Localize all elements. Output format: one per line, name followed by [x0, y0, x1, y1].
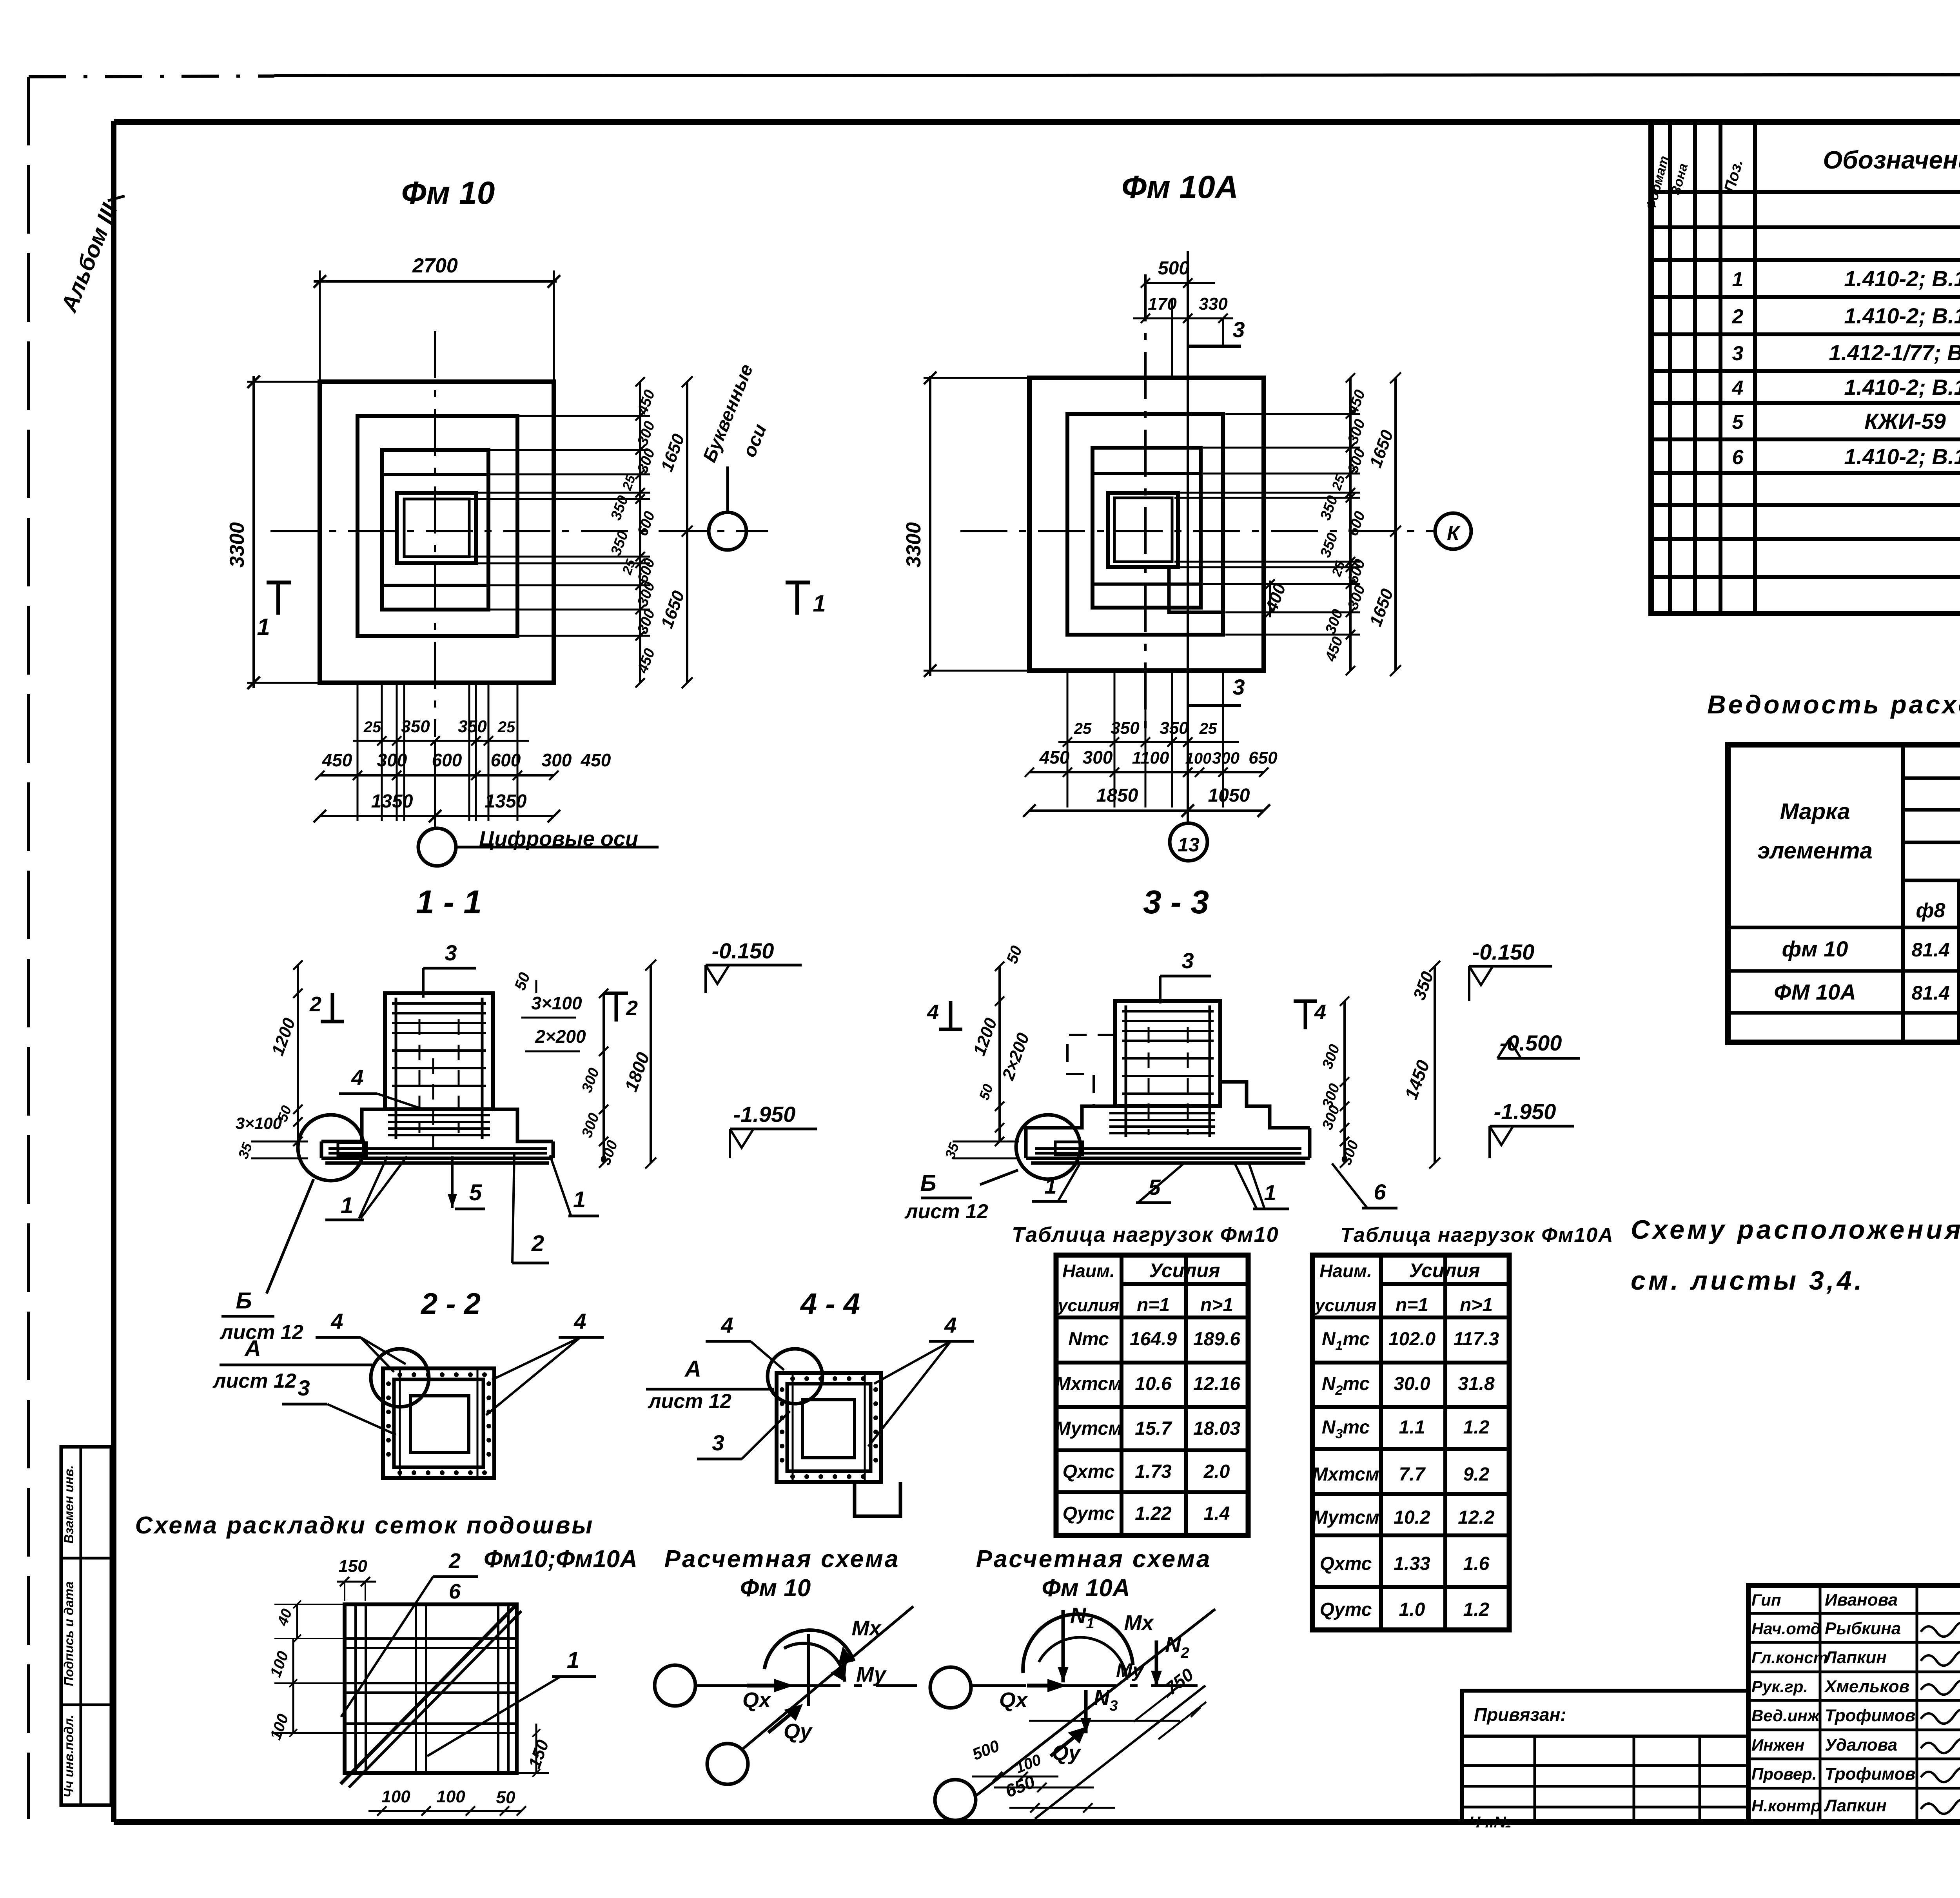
svg-text:2: 2: [309, 993, 321, 1016]
plan FM10 dim 2700 top: [314, 280, 557, 283]
plan FM10 third step inner band lines: [382, 473, 488, 476]
svg-text:3: 3: [1181, 948, 1194, 973]
svg-text:Провер.: Провер.: [1751, 1765, 1817, 1783]
svg-text:Таблица нагрузок Фм10: Таблица нагрузок Фм10: [1012, 1223, 1279, 1247]
svg-text:лист 12: лист 12: [647, 1390, 731, 1413]
svg-text:Qутс: Qутс: [1063, 1503, 1115, 1524]
svg-text:Qутс: Qутс: [1320, 1599, 1372, 1620]
svg-text:лист 12: лист 12: [219, 1321, 303, 1344]
svg-text:10.2: 10.2: [1394, 1507, 1430, 1528]
svg-text:1: 1: [1732, 268, 1744, 291]
svg-text:Привязан:: Привязан:: [1474, 1704, 1566, 1725]
svg-text:Рыбкина: Рыбкина: [1825, 1619, 1901, 1638]
plan FM10A bottom-right notch step: [1169, 584, 1223, 612]
title block privyazan grid: [1534, 1736, 1536, 1822]
svg-text:100: 100: [1185, 750, 1212, 767]
mesh layout diagonal mesh line: [341, 1604, 517, 1784]
section 1-1 bottom slab: [320, 1141, 323, 1158]
svg-text:Фм 10: Фм 10: [740, 1575, 811, 1602]
svg-text:Обозначение: Обозначение: [1823, 146, 1960, 174]
title block privyazan box: [1462, 1691, 1748, 1822]
svg-text:102.0: 102.0: [1388, 1329, 1436, 1350]
steel table subcolumn lines: [1957, 880, 1960, 1042]
svg-text:Фм10;Фм10А: Фм10;Фм10А: [484, 1546, 637, 1573]
calc scheme FM10A axis circle bottom: [935, 1780, 976, 1820]
svg-text:2 - 2: 2 - 2: [420, 1287, 481, 1321]
plan FM10 column inner square: [404, 499, 469, 557]
section 3-3 detail circle: [1016, 1115, 1080, 1179]
section 1-1 label 3 top: [423, 967, 476, 970]
svg-text:Му: Му: [1116, 1659, 1144, 1681]
svg-text:81.4: 81.4: [1911, 982, 1949, 1004]
calc scheme FM10A axis circle left: [930, 1667, 971, 1708]
calc scheme FM10A N3 arrow: [1084, 1690, 1088, 1733]
svg-text:10.6: 10.6: [1135, 1374, 1172, 1394]
svg-text:3: 3: [1732, 342, 1744, 365]
svg-text:Расчетная схема: Расчетная схема: [976, 1546, 1212, 1573]
plan FM10 horizontal centerline: [270, 530, 768, 532]
svg-text:1350: 1350: [371, 791, 413, 812]
svg-text:3×100: 3×100: [531, 993, 582, 1013]
calc scheme FM10 Qx arrow: [747, 1684, 786, 1688]
svg-text:50: 50: [496, 1788, 515, 1807]
svg-text:1.73: 1.73: [1135, 1461, 1172, 1482]
mesh layout grid outer: [345, 1604, 517, 1773]
svg-text:Мхтсм: Мхтсм: [1055, 1374, 1122, 1394]
section 1-1 pedestal stirrups: [392, 1002, 486, 1005]
svg-text:2: 2: [626, 996, 638, 1020]
svg-text:Таблица нагрузок Фм10А: Таблица нагрузок Фм10А: [1340, 1224, 1614, 1247]
svg-text:Гип: Гип: [1751, 1591, 1781, 1609]
svg-text:Инжен: Инжен: [1751, 1736, 1804, 1754]
svg-text:Подпись и дата: Подпись и дата: [62, 1581, 76, 1686]
svg-text:4: 4: [351, 1065, 363, 1090]
svg-text:25: 25: [497, 719, 515, 736]
svg-text:4: 4: [330, 1309, 343, 1334]
svg-text:1.410-2; В.1: 1.410-2; В.1: [1844, 303, 1960, 328]
svg-text:Взамен инв.: Взамен инв.: [62, 1465, 76, 1544]
svg-text:А: А: [244, 1336, 261, 1361]
plan FM10A third step inner band lines: [1093, 472, 1201, 475]
section 3-3 callout B list 12: [980, 1170, 1018, 1185]
svg-text:3 - 3: 3 - 3: [1143, 884, 1209, 920]
svg-text:2: 2: [531, 1231, 544, 1256]
svg-text:5: 5: [1732, 411, 1744, 434]
plan FM10 second step rect: [358, 416, 517, 636]
svg-text:-1.950: -1.950: [733, 1102, 796, 1127]
svg-text:Мутсм: Мутсм: [1055, 1418, 1122, 1439]
svg-text:300: 300: [542, 750, 572, 770]
svg-text:25: 25: [363, 719, 381, 736]
svg-text:Лапкин: Лапкин: [1824, 1796, 1887, 1815]
svg-text:650: 650: [1249, 748, 1278, 768]
svg-text:Nтс: Nтс: [1068, 1329, 1109, 1350]
section 2-2 outer square: [383, 1368, 494, 1478]
calc scheme FM10 moment arc My: [784, 1643, 845, 1682]
svg-text:ФМ 10А: ФМ 10А: [1774, 980, 1856, 1004]
svg-text:450: 450: [1039, 747, 1070, 768]
section 1-1 slab mesh lines: [388, 1114, 490, 1116]
svg-text:150: 150: [338, 1557, 367, 1576]
svg-text:Трофимов: Трофимов: [1825, 1706, 1915, 1725]
svg-text:Удалова: Удалова: [1825, 1735, 1897, 1755]
calc scheme FM10A N2 arrow: [1155, 1640, 1158, 1686]
svg-text:100: 100: [436, 1787, 465, 1806]
section 1-1 pedestal outline: [385, 993, 493, 1109]
svg-text:1.0: 1.0: [1399, 1599, 1425, 1620]
svg-text:2: 2: [448, 1549, 461, 1573]
svg-text:15.7: 15.7: [1135, 1418, 1172, 1439]
svg-text:Фм 10А: Фм 10А: [1122, 169, 1238, 205]
mesh layout double horizontal bars: [345, 1637, 517, 1640]
section 2-2 detail circle A: [371, 1349, 429, 1407]
svg-text:Схему расположения фундаментов: Схему расположения фундаментов: [1631, 1215, 1960, 1245]
svg-text:К: К: [1447, 522, 1461, 545]
plan FM10A section mark 3 top: [1188, 345, 1241, 348]
svg-text:4: 4: [1732, 377, 1744, 399]
plan FM10A digit axis circle 13: [1170, 823, 1207, 861]
svg-text:1.410-2; В.1: 1.410-2; В.1: [1844, 266, 1960, 291]
mesh layout double vertical bars: [354, 1604, 357, 1773]
section 4-4 inner wall square: [787, 1384, 871, 1471]
svg-text:см. листы 3,4.: см. листы 3,4.: [1631, 1266, 1864, 1296]
svg-text:13: 13: [1178, 834, 1200, 856]
svg-text:12.16: 12.16: [1193, 1374, 1240, 1394]
svg-text:6: 6: [449, 1580, 461, 1603]
svg-text:Иванова: Иванова: [1825, 1590, 1898, 1609]
svg-text:усилия: усилия: [1057, 1296, 1119, 1315]
svg-text:-0.150: -0.150: [712, 938, 774, 963]
calc scheme FM10 moment arc Mx: [764, 1630, 854, 1669]
section 3-3 pedestal outline: [1115, 1001, 1220, 1106]
svg-text:N2тс: N2тс: [1322, 1374, 1370, 1398]
svg-text:1.33: 1.33: [1394, 1553, 1430, 1574]
section 2-2 inner wall square: [394, 1379, 483, 1467]
left margin stamp boxes: [61, 1447, 111, 1805]
calc scheme FM10A Qx arrow: [1027, 1684, 1058, 1688]
svg-text:450: 450: [322, 750, 352, 770]
svg-text:Усилия: Усилия: [1149, 1259, 1220, 1281]
svg-text:189.6: 189.6: [1193, 1329, 1240, 1350]
svg-text:600: 600: [432, 750, 462, 770]
plan FM10 outer slab rect: [320, 382, 554, 683]
svg-text:31.8: 31.8: [1458, 1374, 1495, 1394]
plan FM10A dim 3300 left: [929, 376, 931, 676]
svg-text:100: 100: [381, 1787, 410, 1806]
svg-text:Лапкин: Лапкин: [1824, 1648, 1887, 1667]
plan FM10A bottom extension lines: [1067, 671, 1069, 807]
section 2-2 corner bars: [399, 1368, 401, 1478]
svg-text:1850: 1850: [1096, 785, 1138, 806]
svg-text:4: 4: [720, 1313, 733, 1337]
calc scheme FM10 Qy arrow: [768, 1710, 796, 1733]
svg-text:Мхтсм: Мхтсм: [1312, 1464, 1379, 1485]
svg-text:Расчетная схема: Расчетная схема: [664, 1546, 900, 1573]
calc scheme FM10A N1 arrow: [1062, 1610, 1065, 1682]
title block signatures scribbles: [1921, 1622, 1960, 1637]
svg-text:1.410-2; В.1: 1.410-2; В.1: [1844, 375, 1960, 399]
svg-text:Трофимов: Трофимов: [1825, 1764, 1915, 1784]
calc scheme FM10A moment arc: [1023, 1614, 1133, 1673]
svg-text:Qу: Qу: [1052, 1741, 1082, 1765]
svg-text:1: 1: [567, 1648, 579, 1673]
section 1-1 pedestal vertical bars: [395, 998, 397, 1139]
svg-text:КЖИ-59: КЖИ-59: [1864, 409, 1946, 434]
svg-text:Н.контр: Н.контр: [1751, 1796, 1821, 1815]
calc scheme FM10A diagonal parallels: [1035, 1686, 1205, 1819]
section 1-1 section mark 2 right: [615, 993, 618, 1022]
section 3-3 section mark 4 right: [1304, 1001, 1307, 1029]
svg-text:3: 3: [1232, 317, 1245, 342]
svg-text:2×200: 2×200: [535, 1026, 586, 1047]
plan FM10 right small dim chain: [639, 382, 641, 683]
svg-text:Qх: Qх: [999, 1688, 1028, 1712]
section 3-3 bottom slab: [1024, 1141, 1028, 1158]
svg-text:3: 3: [445, 940, 457, 965]
svg-text:элемента: элемента: [1757, 838, 1873, 864]
svg-text:81.4: 81.4: [1911, 939, 1949, 961]
svg-text:2: 2: [1732, 305, 1744, 328]
section 4-4 outer square: [777, 1373, 881, 1482]
section 2-2 opening square: [410, 1396, 469, 1453]
svg-text:Му: Му: [856, 1663, 887, 1686]
section 3-3 pedestal vertical bars: [1125, 1005, 1127, 1137]
plan FM10 vertical centerline: [434, 331, 436, 737]
svg-text:1100: 1100: [1132, 748, 1169, 768]
load table FM10 grid: [1056, 1255, 1248, 1535]
section 4-4 opening square: [802, 1400, 855, 1458]
svg-text:усилия: усилия: [1314, 1296, 1376, 1315]
calc scheme FM10A Qy arrow: [1051, 1733, 1080, 1756]
svg-text:Марка: Марка: [1780, 799, 1850, 824]
plan FM10A third step rect: [1093, 448, 1201, 608]
svg-text:ф8: ф8: [1916, 899, 1945, 922]
svg-text:12.2: 12.2: [1458, 1507, 1495, 1528]
plan FM10 section mark 1 right: [795, 582, 799, 615]
plan FM10A horizontal centerline: [960, 530, 1435, 532]
section 1-1 middle step outline: [321, 1109, 385, 1141]
svg-text:25: 25: [1074, 720, 1092, 737]
svg-text:Qх: Qх: [742, 1688, 771, 1712]
plan FM10A right small dim chain: [1349, 378, 1352, 671]
svg-text:350: 350: [401, 717, 430, 736]
plan FM10 digit axis circle: [418, 828, 456, 866]
steel table grid: [1728, 745, 1960, 1042]
plan FM10 section mark 1 left: [276, 582, 280, 615]
plan FM10A right dim chain 1650s: [1394, 378, 1397, 671]
svg-text:Нач.отд: Нач.отд: [1751, 1619, 1821, 1638]
svg-text:Б: Б: [920, 1170, 936, 1196]
svg-text:6: 6: [1732, 446, 1744, 469]
section 4-4 detail circle A: [768, 1349, 822, 1404]
svg-text:1: 1: [341, 1193, 353, 1218]
svg-text:4 - 4: 4 - 4: [800, 1287, 860, 1321]
svg-text:Мх: Мх: [1124, 1611, 1154, 1635]
plan FM10A column inner square: [1114, 498, 1172, 562]
plan FM10 third step rect: [382, 450, 488, 610]
svg-text:Фм 10: Фм 10: [401, 175, 495, 211]
section 1-1 mesh cross ticks: [432, 1058, 434, 1149]
calc scheme FM10A horizontal ref lines: [1029, 1720, 1180, 1722]
svg-text:Наим.: Наим.: [1062, 1261, 1115, 1281]
svg-text:N1тс: N1тс: [1322, 1329, 1370, 1353]
svg-text:лист 12: лист 12: [904, 1200, 988, 1223]
plan FM10A vertical centerline: [1144, 274, 1147, 737]
section 4-4 rebar dots: [790, 1376, 795, 1381]
plan FM10 dim 3300 left: [252, 376, 255, 688]
section 3-3 left dims: [998, 966, 1001, 1141]
svg-text:Мутсм: Мутсм: [1312, 1507, 1379, 1528]
section 3-3 label 3 top: [1160, 975, 1211, 978]
calc scheme FM10 axis circle bottom: [707, 1744, 748, 1784]
svg-text:Хмельков: Хмельков: [1824, 1677, 1909, 1696]
svg-text:Наим.: Наим.: [1319, 1261, 1372, 1281]
svg-text:-0.150: -0.150: [1472, 940, 1535, 964]
svg-text:5: 5: [469, 1180, 482, 1205]
svg-text:n=1: n=1: [1396, 1295, 1428, 1316]
svg-text:3300: 3300: [226, 522, 249, 568]
svg-text:4: 4: [944, 1313, 956, 1337]
svg-text:7.7: 7.7: [1399, 1464, 1426, 1485]
svg-text:4: 4: [927, 1000, 939, 1024]
svg-text:3: 3: [1232, 675, 1245, 699]
title block names table: [1748, 1586, 1960, 1822]
svg-text:4: 4: [1314, 1000, 1326, 1024]
svg-text:1: 1: [813, 590, 826, 617]
svg-text:N3тс: N3тс: [1322, 1417, 1370, 1441]
svg-text:Фм 10А: Фм 10А: [1042, 1575, 1130, 1602]
svg-text:Чч.№: Чч.№: [1469, 1814, 1512, 1831]
calc scheme FM10 horizontal axis: [695, 1684, 917, 1687]
svg-text:n=1: n=1: [1137, 1295, 1170, 1316]
svg-text:Вед.инж: Вед.инж: [1751, 1706, 1820, 1725]
calc scheme FM10 vertical line: [807, 1634, 810, 1706]
svg-text:1.4: 1.4: [1204, 1503, 1230, 1524]
section 3-3 section mark 4 left: [949, 1001, 953, 1029]
svg-text:1: 1: [573, 1187, 586, 1212]
calc scheme FM10 diagonal axis: [742, 1606, 913, 1749]
svg-text:Чч инв.подл.: Чч инв.подл.: [62, 1715, 76, 1797]
svg-text:350: 350: [1111, 719, 1140, 738]
svg-text:1.1: 1.1: [1399, 1417, 1425, 1438]
svg-text:-1.950: -1.950: [1494, 1099, 1556, 1124]
section 3-3 right steps profile: [1220, 1082, 1310, 1128]
svg-text:Qхтс: Qхтс: [1063, 1461, 1115, 1482]
plan FM10A second step rect: [1067, 414, 1223, 635]
section 4-4 bottom right notch: [855, 1482, 900, 1516]
svg-text:4: 4: [573, 1309, 586, 1334]
svg-text:18.03: 18.03: [1193, 1418, 1240, 1439]
svg-text:9.2: 9.2: [1463, 1464, 1490, 1485]
svg-text:1.2: 1.2: [1463, 1417, 1490, 1438]
svg-text:3: 3: [298, 1375, 310, 1400]
svg-text:300: 300: [1083, 747, 1113, 768]
svg-text:500: 500: [1158, 258, 1189, 279]
svg-text:350: 350: [1160, 719, 1189, 738]
section 3-3 left profile: [1026, 1106, 1115, 1141]
section 1-1 callout B list 12: [267, 1179, 314, 1294]
specification table grid: [1651, 122, 1960, 613]
svg-text:1.22: 1.22: [1135, 1503, 1172, 1524]
svg-text:фм 10: фм 10: [1782, 936, 1848, 961]
svg-text:300: 300: [1212, 749, 1240, 767]
svg-text:2700: 2700: [412, 254, 458, 277]
inner frame left: [111, 121, 116, 1822]
plan FM10A letter axis circle K: [1435, 513, 1471, 549]
section 3-3 slab mesh lines: [1109, 1112, 1215, 1114]
svg-text:450: 450: [581, 750, 611, 770]
plan FM10 bottom extension lines: [357, 683, 359, 821]
plan FM10A column outer square: [1108, 493, 1178, 567]
svg-text:1050: 1050: [1208, 785, 1250, 806]
section 3-3 left hidden step dashes: [1067, 1035, 1115, 1106]
svg-text:-0.500: -0.500: [1500, 1031, 1562, 1055]
svg-text:350: 350: [458, 717, 487, 736]
svg-text:6: 6: [1374, 1179, 1386, 1204]
inner frame bottom: [114, 1819, 1960, 1825]
svg-text:2.0: 2.0: [1203, 1461, 1230, 1482]
svg-text:1 - 1: 1 - 1: [416, 884, 482, 920]
inner frame top: [114, 119, 1960, 125]
plan FM10 right dim extension lines: [517, 415, 650, 417]
svg-text:Б: Б: [236, 1288, 252, 1314]
calc scheme FM10A horizontal axis: [971, 1684, 1198, 1687]
svg-text:3300: 3300: [902, 522, 925, 568]
svg-text:Qу: Qу: [784, 1720, 813, 1743]
svg-text:1.2: 1.2: [1463, 1599, 1490, 1620]
svg-text:лист 12: лист 12: [212, 1370, 296, 1392]
svg-text:1.412-1/77; В.3: 1.412-1/77; В.3: [1829, 340, 1960, 365]
plan FM10A outer slab rect: [1029, 378, 1264, 671]
svg-text:1: 1: [1044, 1174, 1056, 1198]
svg-text:n>1: n>1: [1200, 1295, 1233, 1316]
svg-text:Ведомость расхода стали на эле: Ведомость расхода стали на элемент, кг: [1707, 690, 1960, 719]
section 1-1 left dims: [297, 965, 299, 1141]
svg-text:25: 25: [1199, 720, 1217, 737]
outer sheet border top (dashed): [29, 76, 274, 77]
section 3-3 pedestal stirrups: [1122, 1010, 1214, 1013]
section 2-2 rebar dots: [397, 1372, 402, 1377]
svg-text:А: А: [684, 1356, 701, 1382]
svg-text:3: 3: [712, 1430, 724, 1455]
svg-text:Схема раскладки сеток подошвы: Схема раскладки сеток подошвы: [135, 1512, 594, 1539]
load table FM10A grid: [1312, 1255, 1509, 1630]
svg-text:600: 600: [491, 750, 521, 770]
plan FM10 letter axis circle: [709, 512, 746, 550]
section 1-1 detail circle B: [298, 1115, 364, 1181]
svg-text:1.6: 1.6: [1463, 1553, 1490, 1574]
svg-text:Мх: Мх: [851, 1617, 882, 1640]
outer sheet border left (dashed): [27, 77, 30, 1819]
section 3-3 right dims: [1343, 1001, 1346, 1163]
svg-text:1: 1: [257, 614, 270, 640]
svg-text:Усилия: Усилия: [1409, 1259, 1480, 1281]
plan FM10 right dim chain 1650s: [686, 382, 688, 683]
plan FM10 column outer square: [397, 493, 476, 563]
section 1-1 section mark 2 left: [331, 993, 334, 1022]
svg-text:30.0: 30.0: [1394, 1374, 1430, 1394]
section 4-4 corner bars: [792, 1373, 794, 1482]
svg-text:1350: 1350: [485, 791, 527, 812]
svg-text:Рук.гр.: Рук.гр.: [1751, 1677, 1808, 1696]
svg-text:Гл.конст: Гл.конст: [1751, 1648, 1828, 1667]
calc scheme FM10 axis circle left: [655, 1665, 695, 1706]
svg-text:164.9: 164.9: [1130, 1329, 1177, 1350]
svg-text:1.410-2; В.1: 1.410-2; В.1: [1844, 444, 1960, 469]
svg-text:n>1: n>1: [1460, 1295, 1493, 1316]
svg-text:Qхтс: Qхтс: [1320, 1553, 1372, 1574]
plan FM10A offset axis line 13: [1187, 251, 1189, 823]
